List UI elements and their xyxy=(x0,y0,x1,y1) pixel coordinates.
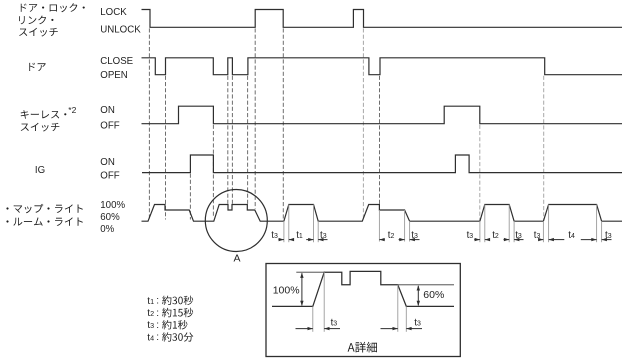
svg-text:OFF: OFF xyxy=(100,171,119,182)
circle detail marker A xyxy=(205,190,267,252)
label door lock link switch line1 xyxy=(21,3,85,12)
dim t2 hold pulse3 xyxy=(485,239,489,241)
svg-text:A: A xyxy=(233,252,240,264)
dashed line all-off x213 xyxy=(212,125,214,218)
inset dim t3 fall xyxy=(381,328,398,330)
dim t2 hold pulse2 xyxy=(379,239,384,241)
svg-text:UNLOCK: UNLOCK xyxy=(100,24,141,35)
dim t3 fall pulse1 xyxy=(318,239,327,241)
dashed line lock-fall x283 xyxy=(282,28,284,220)
inset detail box frame xyxy=(266,264,460,357)
svg-text:IG: IG xyxy=(35,165,45,176)
svg-text:OFF: OFF xyxy=(100,121,119,132)
label door lock link switch line2 xyxy=(19,16,53,25)
inset dim t3 rise xyxy=(296,328,313,330)
svg-text:t2: t2 xyxy=(147,308,154,319)
dim t3 fall pulse2 xyxy=(410,239,420,241)
svg-text::: : xyxy=(156,308,159,319)
dim t3 rise pulse3 xyxy=(474,239,480,241)
svg-text:t3: t3 xyxy=(331,317,338,328)
svg-text:t1: t1 xyxy=(296,230,303,241)
pulse4 extension lines xyxy=(542,221,544,242)
svg-text:t2: t2 xyxy=(388,230,395,241)
svg-text:0%: 0% xyxy=(100,224,114,235)
wire IG signal xyxy=(142,155,622,173)
inset waveform xyxy=(272,271,454,306)
svg-text::: : xyxy=(156,320,159,331)
svg-text:60%: 60% xyxy=(100,212,120,223)
dim t3 fall pulse3 xyxy=(514,239,523,241)
label door xyxy=(29,63,46,71)
dashed line keyless-fall x479 xyxy=(479,125,481,221)
svg-text:t1: t1 xyxy=(147,296,154,307)
dim t3 fall pulse4 xyxy=(602,239,612,241)
svg-text:t3: t3 xyxy=(534,230,541,241)
svg-text:t4: t4 xyxy=(147,332,154,343)
dashed line lock-rise x255 xyxy=(254,28,256,208)
svg-text:t3: t3 xyxy=(515,230,522,241)
dashed line door-rise x165 xyxy=(165,76,167,220)
dim t4 hold pulse4 xyxy=(549,239,565,241)
svg-text:100%: 100% xyxy=(100,200,125,211)
label keyless line1 xyxy=(21,110,67,119)
dashed line IG-rise x190 xyxy=(189,174,191,220)
svg-text:t3: t3 xyxy=(271,230,278,241)
dashed line door-rise x379 xyxy=(379,76,381,209)
svg-text:ON: ON xyxy=(100,105,115,116)
inset caption A detail xyxy=(348,342,377,353)
svg-text:t4: t4 xyxy=(568,230,575,241)
wire lock/unlock signal xyxy=(142,10,623,28)
dim t3 rise pulse1 xyxy=(278,239,284,241)
wire light dimming signal xyxy=(142,205,623,222)
dim t3 rise pulse4 xyxy=(541,239,544,241)
label map light xyxy=(6,204,82,213)
dim t1 hold pulse1 xyxy=(289,239,293,241)
svg-text:t3: t3 xyxy=(411,230,418,241)
pulse2 extension lines xyxy=(378,210,380,242)
svg-text::: : xyxy=(156,332,159,343)
inset rise extension lines xyxy=(312,306,314,331)
svg-text:*2: *2 xyxy=(68,105,76,115)
dashed line door-pulse-rise x228 xyxy=(227,76,229,204)
svg-text:t2: t2 xyxy=(492,230,499,241)
svg-text:t3: t3 xyxy=(467,230,474,241)
dashed line lock-drop x149 xyxy=(148,28,150,219)
inset 60% reference line xyxy=(398,284,454,286)
svg-text:t3: t3 xyxy=(605,230,612,241)
dashed line door-pulse-fall x232 xyxy=(231,76,233,204)
svg-text:OPEN: OPEN xyxy=(100,70,127,81)
wire keyless switch signal xyxy=(142,106,623,124)
dashed line lock-fall2 x363 xyxy=(362,28,364,220)
svg-text:LOCK: LOCK xyxy=(100,7,127,18)
inset 100% arrow xyxy=(301,273,303,305)
pulse3 extension lines xyxy=(479,221,481,242)
dashed line door-rise x247 xyxy=(247,76,249,204)
wire door signal xyxy=(142,58,623,75)
inset 100% reference line xyxy=(296,271,325,273)
svg-text:t3: t3 xyxy=(414,317,421,328)
label room light xyxy=(6,217,82,225)
svg-text:60%: 60% xyxy=(423,289,444,301)
inset fall extension lines xyxy=(397,285,399,332)
dashed line door-fall x543 xyxy=(543,76,545,221)
svg-text:t3: t3 xyxy=(147,320,154,331)
svg-text:ON: ON xyxy=(100,157,115,168)
label keyless line2 xyxy=(21,123,60,132)
svg-text::: : xyxy=(156,296,159,307)
svg-text:t3: t3 xyxy=(320,230,327,241)
pulse1 extension lines xyxy=(283,221,285,242)
label door lock link switch line3 xyxy=(19,28,58,37)
svg-text:100%: 100% xyxy=(273,284,300,296)
inset 60% arrow xyxy=(417,286,419,306)
svg-text:CLOSE: CLOSE xyxy=(100,56,133,67)
